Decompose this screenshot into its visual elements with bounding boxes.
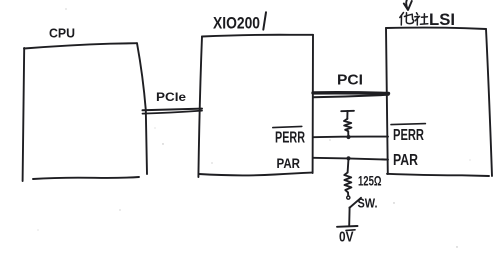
ground 0V bar: [337, 225, 358, 228]
wire R2 to switch: [347, 192, 349, 195]
label LSI: [429, 10, 455, 29]
switch SW: [347, 196, 361, 209]
wire switch to ground: [348, 208, 350, 226]
value label 125 ohm: [358, 173, 382, 189]
label 社 (kanji, drawn): [415, 13, 428, 25]
label 0V with overbar: [339, 228, 354, 245]
node junction J2 on PAR: [346, 156, 350, 160]
block U2 XIO2001 box: [198, 35, 313, 177]
label PERR (XIO2001 side, with overbar): [275, 129, 305, 146]
bus PCI (XIO2001 to LSI): [313, 93, 389, 98]
overbar for PERR (XIO2001 side): [273, 126, 302, 127]
svg-text:PCI: PCI: [337, 71, 363, 88]
scan speckles (noise): [38, 8, 471, 247]
wire from PAR junction down to R2: [347, 158, 350, 172]
wire PERR net (XIO2001 to LSI): [313, 136, 388, 139]
svg-text:PCIe: PCIe: [156, 90, 186, 104]
svg-text:125Ω: 125Ω: [358, 173, 382, 189]
label PERR (LSI side, with overbar): [393, 127, 424, 144]
overbar of V in 0V: [346, 229, 355, 232]
resistor R2 125 ohm: [344, 173, 351, 193]
annotation arrow above LSI: [404, 0, 412, 10]
resistor R1 pull-up on PERR: [341, 111, 354, 137]
label digit 1 of XIO2001: [263, 12, 266, 29]
wire PAR net (XIO2001 to LSI): [313, 158, 388, 160]
bus PCIe (CPU to XIO2001): [143, 109, 203, 114]
block U3 other-company LSI box: [386, 28, 492, 176]
svg-text:CPU: CPU: [49, 25, 75, 40]
label SW.: [358, 196, 378, 210]
svg-text:PERR: PERR: [393, 127, 424, 144]
label XIO2001: [213, 14, 260, 33]
label CPU: [49, 25, 75, 40]
svg-text:XIO200: XIO200: [213, 14, 260, 33]
label PCIe: [156, 90, 186, 104]
label PAR (LSI side): [393, 152, 418, 169]
block U1 CPU box: [23, 43, 147, 181]
node junction J1 on PERR: [346, 135, 350, 139]
svg-text:PERR: PERR: [275, 129, 305, 146]
label PAR (XIO2001 side): [277, 155, 301, 171]
svg-text:LSI: LSI: [429, 10, 455, 29]
label 他 (kanji, drawn): [400, 13, 414, 26]
svg-text:PAR: PAR: [277, 155, 301, 171]
svg-text:PAR: PAR: [393, 152, 418, 169]
svg-text:SW.: SW.: [358, 196, 378, 210]
label PCI: [337, 71, 363, 88]
overbar for PERR (LSI side): [391, 124, 425, 125]
